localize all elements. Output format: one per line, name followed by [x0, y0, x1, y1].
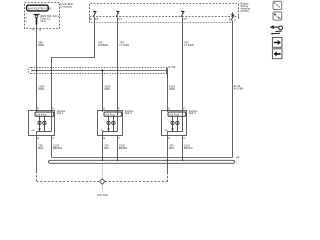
svg-text:OG/BLK: OG/BLK	[98, 43, 108, 47]
svg-text:ORN: ORN	[169, 87, 175, 91]
svg-text:HF: HF	[236, 156, 240, 159]
svg-text:Coil Assy: Coil Assy	[169, 114, 180, 117]
svg-text:ORN: ORN	[38, 87, 44, 91]
svg-text:Coil Assy: Coil Assy	[105, 114, 116, 117]
svg-text:MIN RDO/TRN FusB: MIN RDO/TRN FusB	[28, 8, 51, 10]
svg-text:BK/WH: BK/WH	[53, 146, 62, 150]
svg-text:(C105): (C105)	[241, 10, 249, 13]
svg-text:E: E	[104, 137, 106, 140]
svg-text:BLK: BLK	[38, 146, 43, 150]
svg-text:ATF G04: ATF G04	[97, 194, 108, 197]
svg-text:Coil Assy: Coil Assy	[36, 114, 47, 117]
svg-text:S-746: S-746	[168, 66, 176, 69]
svg-text:D: D	[37, 107, 39, 110]
svg-text:LT GRN: LT GRN	[120, 43, 130, 47]
svg-text:F5: F5	[95, 18, 99, 21]
svg-text:ORN: ORN	[104, 87, 110, 91]
svg-text:R-G BN: R-G BN	[234, 86, 244, 90]
svg-text:C: C	[53, 137, 55, 140]
svg-text:ORN: ORN	[38, 43, 44, 47]
svg-text:F3: F3	[184, 18, 188, 21]
svg-text:BLK: BLK	[169, 146, 174, 150]
svg-text:4Ω: 4Ω	[101, 130, 104, 132]
svg-text:BLK: BLK	[104, 146, 109, 150]
svg-text:F4: F4	[119, 18, 123, 21]
svg-text:3: 3	[234, 18, 236, 21]
svg-text:BK/GN: BK/GN	[184, 146, 193, 150]
svg-text:15 A: 15 A	[40, 19, 46, 23]
svg-text:C: C	[184, 137, 186, 140]
svg-text:F: F	[52, 107, 54, 110]
svg-text:E: E	[229, 18, 231, 21]
svg-text:D: D	[168, 107, 170, 110]
svg-text:Coil 3: Coil 3	[189, 112, 196, 115]
svg-text:BK/RD: BK/RD	[119, 146, 127, 150]
svg-text:F: F	[118, 107, 120, 110]
svg-text:F1: F1	[32, 28, 36, 32]
svg-text:F: F	[183, 107, 185, 110]
svg-text:20: 20	[38, 28, 42, 32]
svg-text:4Ω: 4Ω	[165, 130, 168, 132]
svg-text:10: 10	[89, 18, 92, 21]
svg-text:(Junction): (Junction)	[60, 5, 72, 9]
svg-text:LT GRN: LT GRN	[184, 43, 194, 47]
svg-text:Coil 2: Coil 2	[125, 112, 132, 115]
svg-text:4Ω: 4Ω	[32, 130, 35, 132]
svg-text:Coil 1: Coil 1	[57, 112, 64, 115]
svg-text:C: C	[119, 137, 121, 140]
svg-text:E: E	[38, 137, 40, 140]
svg-text:D: D	[103, 107, 105, 110]
svg-text:E: E	[169, 137, 171, 140]
